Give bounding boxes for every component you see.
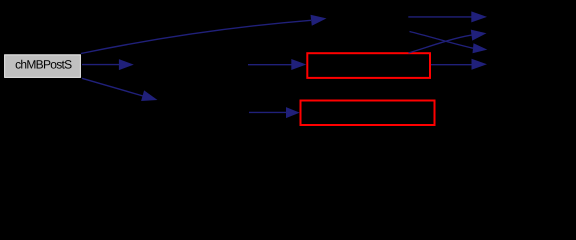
edge chMBPostS to middle hidden node (horizontal wire): [82, 59, 134, 70]
node chMBPostS (gray filled box): [5, 55, 81, 78]
edge middle hidden node to red box 1 (horizontal wire): [248, 59, 306, 70]
svg-text:chMBPostS: chMBPostS: [15, 57, 72, 71]
edge top hidden node to far right node 3 (descending wire): [410, 32, 488, 54]
edge red box 1 to far right node 4 (horizontal wire): [431, 59, 487, 70]
edge top hidden node to far right node 1 (horizontal wire): [408, 11, 487, 22]
red box 1 (truncated node): [307, 53, 430, 78]
edge lower hidden node to red box 2 (horizontal wire): [249, 107, 300, 118]
red box 2 (truncated node): [301, 101, 435, 126]
edge chMBPostS to top hidden node (curved wire): [81, 15, 327, 54]
edge red box 1 to far right node 2 (ascending wire): [409, 30, 487, 53]
edge chMBPostS to lower hidden node (diagonal wire): [82, 78, 158, 101]
